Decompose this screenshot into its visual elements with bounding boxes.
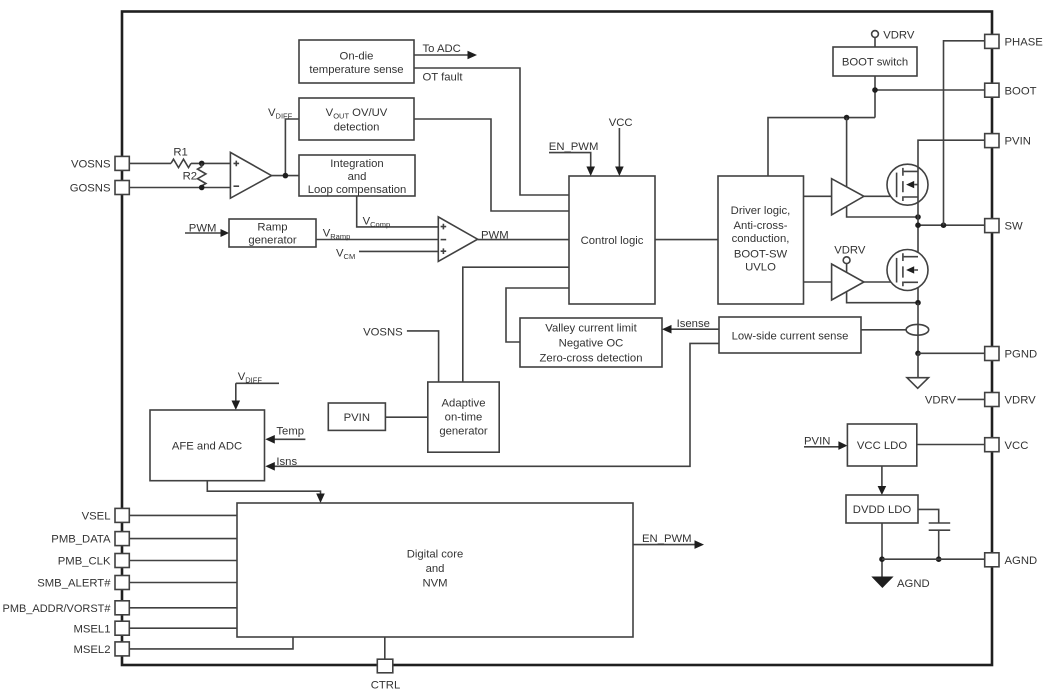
wire AGND rail to AGND pin	[882, 558, 985, 560]
block Vout OV/UV detection	[299, 98, 414, 140]
svg-text:Low-side current sense: Low-side current sense	[732, 330, 849, 342]
svg-text:R2: R2	[183, 171, 197, 183]
node low-side source junction	[915, 300, 921, 306]
wire PMB_DATA to Digital core	[129, 538, 237, 540]
wire PMB_ADDR/VORST# to Digital core	[129, 607, 237, 609]
wire EN_PWM output from Digital core	[633, 533, 704, 549]
svg-text:on-time: on-time	[445, 412, 483, 424]
sensor current sense element	[906, 324, 929, 335]
block AFE and ADC	[150, 410, 265, 481]
block Ramp generator	[229, 219, 316, 247]
wire SW node segment	[917, 217, 919, 303]
wire Temp into AFE	[265, 426, 305, 444]
pin PMB_DATA	[51, 532, 129, 546]
wire Adaptive on-time generator to Control logic	[463, 267, 569, 382]
wire Isns arrowhead and label	[265, 456, 297, 471]
svg-text:generator: generator	[248, 235, 297, 247]
pin SMB_ALERT#	[37, 576, 129, 590]
node DVDD AGND junction	[879, 556, 885, 562]
svg-text:MSEL2: MSEL2	[73, 644, 110, 656]
svg-text:VOSNS: VOSNS	[363, 326, 403, 338]
node junction R1/R2	[199, 161, 205, 167]
terminal VDRV above BOOT switch	[872, 30, 915, 47]
block On-die temperature sense	[299, 40, 414, 83]
wire AFE and ADC to Digital core	[207, 481, 324, 503]
svg-text:Isns: Isns	[276, 456, 297, 468]
wire Vcomp from Integration block to PWM comparator	[357, 196, 439, 229]
wire PMB_CLK to Digital core	[129, 560, 237, 562]
svg-text:VCC: VCC	[1005, 440, 1029, 452]
resistor R2	[183, 163, 206, 187]
wire PGND pin line	[918, 352, 985, 354]
svg-text:EN_PWM: EN_PWM	[549, 141, 599, 153]
wire Vcm to comparator	[336, 248, 438, 262]
wire Control logic to Valley current limit	[506, 288, 569, 342]
node high-side source junction	[915, 214, 921, 220]
svg-text:and: and	[348, 171, 367, 183]
node junction R2/GOSNS	[199, 185, 205, 191]
svg-text:Anti-cross-: Anti-cross-	[734, 220, 788, 232]
svg-text:PVIN: PVIN	[804, 435, 830, 447]
wire Vramp to comparator	[316, 228, 438, 242]
wire GOSNS to op-amp inverting input	[129, 187, 230, 189]
transistor high-side MOSFET	[887, 164, 928, 205]
svg-text:and: and	[426, 563, 445, 575]
wire SW pin line	[918, 224, 985, 226]
svg-text:VDRV: VDRV	[834, 244, 866, 256]
svg-text:R1: R1	[173, 146, 187, 158]
wire PWM comparator output to Control logic	[478, 230, 569, 242]
node SW junction	[915, 222, 921, 228]
svg-text:MSEL1: MSEL1	[73, 623, 110, 635]
wire Isense from Low-side current sense to Valley current limit	[662, 318, 719, 333]
svg-text:PMB_ADDR/VORST#: PMB_ADDR/VORST#	[3, 603, 112, 615]
svg-text:AGND: AGND	[897, 578, 930, 590]
svg-text:Zero-cross detection: Zero-cross detection	[540, 353, 643, 365]
pin BOOT	[985, 83, 1037, 97]
svg-text:BOOT-SW: BOOT-SW	[734, 249, 788, 261]
wire To ADC	[414, 43, 477, 59]
wire VSEL to Digital core	[129, 514, 237, 516]
wire EN_PWM into Control logic	[549, 141, 599, 176]
wire OV/UV output to Control logic	[414, 119, 569, 211]
block Low-side current sense	[719, 317, 861, 353]
wire PVIN block to Adaptive on-time generator	[385, 416, 427, 418]
capacitor decoupling	[929, 523, 951, 530]
svg-text:VOSNS: VOSNS	[71, 159, 111, 171]
pin MSEL2	[73, 642, 129, 656]
block BOOT switch	[833, 47, 917, 76]
svg-text:CTRL: CTRL	[371, 680, 401, 692]
pin VCC	[985, 438, 1029, 452]
wire VOSNS to R1	[129, 162, 171, 164]
svg-text:PVIN: PVIN	[1005, 136, 1031, 148]
wire Isns from Low-side current sense to AFE	[274, 343, 719, 466]
node driver rail junction	[844, 115, 850, 121]
wire low-side gate	[864, 281, 897, 283]
svg-text:OT fault: OT fault	[423, 71, 464, 83]
pin PGND	[985, 347, 1037, 361]
svg-text:AGND: AGND	[1005, 555, 1038, 567]
wire low-side source to PGND	[917, 303, 919, 354]
svg-text:Driver logic,: Driver logic,	[731, 205, 791, 217]
svg-text:Loop compensation: Loop compensation	[308, 184, 407, 196]
block DVDD LDO	[846, 495, 918, 523]
pin VDRV	[985, 393, 1036, 407]
wire SMB_ALERT# to Digital core	[129, 582, 237, 584]
svg-text:conduction,: conduction,	[732, 233, 790, 245]
block PVIN	[328, 403, 385, 430]
wire VCC LDO to VCC pin	[917, 444, 985, 446]
svg-text:BOOT switch: BOOT switch	[842, 57, 908, 69]
svg-text:BOOT: BOOT	[1005, 85, 1037, 97]
svg-text:PMB_CLK: PMB_CLK	[58, 556, 111, 568]
svg-text:To ADC: To ADC	[423, 43, 461, 55]
svg-text:SMB_ALERT#: SMB_ALERT#	[37, 578, 111, 590]
wire Driver logic top rail	[768, 118, 875, 176]
pin PMB_ADDR/VORST#	[3, 601, 130, 615]
wire op-amp output to Integration block	[272, 175, 300, 177]
svg-text:Control logic: Control logic	[581, 235, 644, 247]
node SW-PHASE junction	[941, 222, 947, 228]
svg-text:NVM: NVM	[422, 578, 447, 590]
svg-text:DVDD LDO: DVDD LDO	[853, 504, 912, 516]
wire PHASE pin to SW	[944, 41, 985, 225]
wire MSEL2 to Digital core bottom	[129, 637, 293, 649]
svg-text:Adaptive: Adaptive	[442, 398, 486, 410]
wire CTRL from Digital core	[384, 637, 386, 659]
ground PGND symbol	[907, 353, 929, 388]
svg-text:Digital core: Digital core	[407, 549, 464, 561]
block VCC LDO	[847, 424, 916, 466]
svg-text:VDRV: VDRV	[925, 395, 957, 407]
wire Low-side current sense to sensor	[861, 329, 906, 331]
wire PWM input to Ramp generator	[185, 223, 229, 237]
wire low-side driver return	[847, 292, 918, 303]
wire PVIN pin to high-side drain	[918, 140, 985, 217]
svg-text:generator: generator	[439, 426, 488, 438]
wire Vdiff branch from op-amp output to OV/UV detection	[285, 119, 299, 176]
pin SW	[985, 219, 1023, 233]
svg-text:GOSNS: GOSNS	[70, 183, 111, 195]
block Digital core and NVM	[237, 503, 633, 637]
wire label VOSNS to Adaptive on-time generator	[363, 326, 439, 382]
node BOOT junction	[872, 87, 878, 93]
svg-text:VCC LDO: VCC LDO	[857, 440, 907, 452]
svg-text:Integration: Integration	[330, 158, 383, 170]
terminal VDRV above low-side driver	[834, 244, 866, 272]
block Control logic	[569, 176, 655, 304]
pin PVIN	[985, 134, 1031, 148]
buffer low-side driver	[832, 264, 864, 300]
wire Vdiff label into AFE and ADC	[232, 371, 280, 410]
svg-text:VDRV: VDRV	[883, 30, 915, 42]
svg-text:EN_PWM: EN_PWM	[642, 533, 692, 545]
buffer high-side driver	[832, 179, 864, 215]
svg-text:PVIN: PVIN	[344, 412, 370, 424]
svg-text:Negative OC: Negative OC	[559, 338, 624, 350]
IC boundary	[122, 12, 992, 666]
op-amp error amplifier	[230, 152, 271, 198]
svg-text:Temp: Temp	[276, 426, 304, 438]
svg-text:AFE and ADC: AFE and ADC	[172, 440, 242, 452]
wire high-side gate	[864, 195, 897, 197]
wire DVDD LDO to capacitor	[918, 509, 939, 523]
svg-text:VCC: VCC	[609, 117, 633, 129]
block Driver logic / Anti-cross-conduction / BOOT-SW UVLO	[718, 176, 804, 304]
node capacitor AGND junction	[936, 556, 942, 562]
pin MSEL1	[73, 621, 129, 635]
wire DVDD LDO to AGND ground	[881, 523, 883, 577]
wire Driver logic to high-side driver	[804, 195, 832, 197]
svg-text:Valley current limit: Valley current limit	[545, 323, 637, 335]
svg-text:PMB_DATA: PMB_DATA	[51, 534, 111, 546]
wire VCC into Control logic	[609, 117, 633, 176]
svg-text:PHASE: PHASE	[1005, 37, 1044, 49]
block Valley current limit	[520, 318, 662, 367]
wire R1 to op-amp non-inverting input	[191, 162, 230, 164]
ground AGND symbol	[871, 577, 929, 591]
svg-text:UVLO: UVLO	[745, 261, 776, 273]
comparator PWM	[438, 217, 477, 262]
node op-amp output junction	[283, 173, 289, 179]
wire VDRV label to VDRV pin	[925, 395, 985, 407]
svg-text:SW: SW	[1005, 221, 1024, 233]
pin GOSNS	[70, 181, 130, 195]
wire rail to high-side driver	[846, 118, 848, 187]
wire high-side driver return to SW	[847, 207, 918, 218]
wire PVIN into VCC LDO	[804, 435, 847, 450]
svg-text:VSEL: VSEL	[82, 511, 111, 523]
resistor R1	[171, 146, 191, 167]
svg-text:VDRV: VDRV	[1005, 395, 1037, 407]
block Integration and Loop compensation	[299, 155, 415, 196]
pin PMB_CLK	[58, 554, 130, 568]
pin CTRL	[371, 659, 401, 691]
wire Driver logic to low-side driver	[804, 281, 832, 283]
wire BOOT switch to BOOT pin and driver rail	[874, 76, 876, 118]
svg-text:PGND: PGND	[1005, 349, 1038, 361]
wire OT fault to Control logic	[414, 68, 569, 195]
svg-text:PWM: PWM	[481, 230, 509, 242]
wire capacitor to AGND rail	[938, 530, 940, 559]
pin AGND	[985, 553, 1037, 567]
node PGND junction	[915, 351, 921, 357]
svg-text:On-die: On-die	[340, 51, 374, 63]
wire VCC LDO to DVDD LDO	[878, 466, 887, 495]
wire Control logic to Driver logic	[655, 239, 718, 241]
svg-text:temperature sense: temperature sense	[309, 64, 403, 76]
svg-text:Ramp: Ramp	[257, 222, 287, 234]
pin PHASE	[985, 34, 1044, 48]
block Adaptive on-time generator	[428, 382, 499, 452]
wire MSEL1 to Digital core	[129, 627, 237, 629]
svg-text:detection: detection	[334, 122, 380, 134]
pin VSEL	[82, 508, 130, 522]
transistor low-side MOSFET	[887, 250, 928, 291]
svg-text:Isense: Isense	[677, 318, 710, 330]
pin VOSNS	[71, 156, 129, 170]
wire BOOT pin connection	[875, 89, 985, 91]
